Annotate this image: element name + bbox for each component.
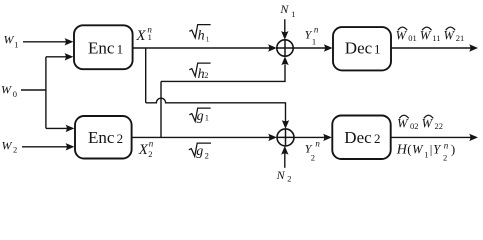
svg-text:W: W xyxy=(397,117,409,131)
svg-text:22: 22 xyxy=(435,121,444,131)
svg-text:2: 2 xyxy=(148,149,152,159)
svg-text:N: N xyxy=(276,168,286,182)
svg-text:2: 2 xyxy=(204,70,208,80)
svg-text:W: W xyxy=(444,28,456,42)
svg-text:W: W xyxy=(4,33,15,47)
svg-text:2: 2 xyxy=(287,174,291,184)
svg-text:1: 1 xyxy=(312,37,316,47)
svg-text:n: n xyxy=(444,141,449,151)
svg-text:X: X xyxy=(138,142,149,158)
svg-text:n: n xyxy=(147,25,152,35)
svg-text:W: W xyxy=(420,28,432,42)
svg-text:2: 2 xyxy=(205,150,209,160)
svg-text:Dec: Dec xyxy=(345,39,373,58)
svg-text:2: 2 xyxy=(311,153,315,163)
svg-text:Enc: Enc xyxy=(88,38,115,57)
svg-text:2: 2 xyxy=(117,131,124,146)
svg-text:1: 1 xyxy=(374,42,381,57)
svg-text:21: 21 xyxy=(456,33,465,43)
svg-text:Dec: Dec xyxy=(344,128,372,147)
svg-text:X: X xyxy=(135,28,146,44)
svg-text:W: W xyxy=(1,82,12,96)
svg-text:n: n xyxy=(314,24,319,34)
svg-text:1: 1 xyxy=(205,113,209,123)
svg-text:n: n xyxy=(149,139,154,149)
svg-text:1: 1 xyxy=(14,39,18,49)
svg-text:01: 01 xyxy=(408,33,417,43)
svg-text:): ) xyxy=(451,142,455,157)
svg-text:W: W xyxy=(422,117,434,131)
svg-text:1: 1 xyxy=(291,9,295,19)
svg-text:H: H xyxy=(396,143,408,158)
svg-text:g: g xyxy=(197,109,204,124)
svg-text:2: 2 xyxy=(443,152,447,162)
svg-text:1: 1 xyxy=(206,36,210,44)
svg-text:1: 1 xyxy=(117,41,124,56)
svg-text:11: 11 xyxy=(432,33,440,43)
svg-text:n: n xyxy=(315,138,320,148)
svg-text:W: W xyxy=(412,143,424,157)
svg-text:|: | xyxy=(430,142,433,157)
svg-text:N: N xyxy=(279,2,289,16)
svg-text:g: g xyxy=(196,144,203,159)
svg-text:1: 1 xyxy=(424,150,428,160)
svg-text:(: ( xyxy=(407,142,411,157)
svg-text:Enc: Enc xyxy=(88,128,115,147)
svg-text:h: h xyxy=(198,29,205,44)
svg-text:02: 02 xyxy=(410,121,419,131)
svg-text:0: 0 xyxy=(13,89,17,99)
svg-text:2: 2 xyxy=(13,145,17,155)
svg-text:2: 2 xyxy=(374,131,381,146)
svg-text:W: W xyxy=(396,28,408,42)
svg-text:W: W xyxy=(2,138,13,152)
